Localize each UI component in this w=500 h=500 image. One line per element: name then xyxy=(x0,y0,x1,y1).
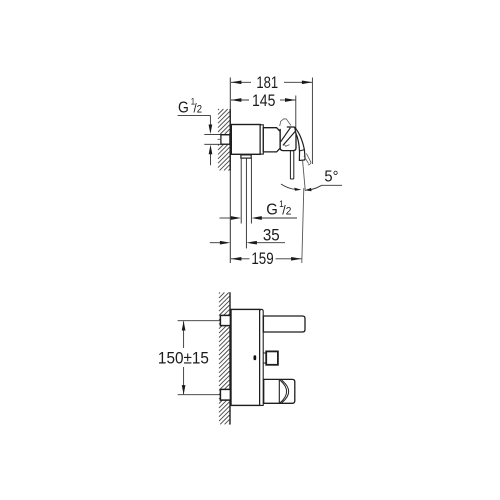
leader line from G 1/2 label + arrow shafts xyxy=(178,115,211,165)
label G 1/2 (outlet thread) xyxy=(266,199,291,219)
front face plate xyxy=(260,309,264,405)
label G 1/2 (inlet thread) xyxy=(178,97,202,116)
body trim ring xyxy=(260,125,263,154)
svg-text:2: 2 xyxy=(286,206,292,217)
svg-text:2: 2 xyxy=(197,104,203,116)
dimension 181: extension line right + dimension line segments xyxy=(231,78,312,165)
lever arm strokes xyxy=(281,128,296,146)
diverter knob xyxy=(266,351,278,364)
lever hub xyxy=(280,127,296,151)
svg-text:150±15: 150±15 xyxy=(158,350,209,368)
dimension 159: dimension line segments xyxy=(231,258,302,260)
wall hatching upper xyxy=(218,109,230,170)
dimension 150±15: dimension line segments xyxy=(183,321,185,394)
svg-text:5°: 5° xyxy=(324,168,338,186)
outlet-thread leader lines xyxy=(220,217,298,219)
dimension 150±15 arrowheads xyxy=(182,321,186,331)
wall hatching lower xyxy=(219,293,230,425)
temperature marker dot xyxy=(254,355,257,360)
in-wall union fitting with axis tick xyxy=(221,135,230,144)
cartridge cone xyxy=(263,128,280,152)
svg-text:G: G xyxy=(178,100,189,117)
lever alternate-position thin outline xyxy=(280,119,311,165)
svg-text:145: 145 xyxy=(252,92,275,110)
mixer body xyxy=(231,125,260,155)
dimension 159 value label xyxy=(251,251,273,268)
outlet-thread arrowheads xyxy=(231,216,241,220)
mixer body (side view) xyxy=(231,309,260,405)
diverter stem xyxy=(263,353,266,363)
wall face line lower xyxy=(229,292,231,424)
dimension 145 value label xyxy=(252,92,275,110)
top mounting union xyxy=(220,315,230,325)
bath spout xyxy=(263,316,305,332)
shower outlet pipe with centerline xyxy=(241,158,251,248)
angle 5deg: tilted lever axis line xyxy=(303,161,306,192)
inlet connection tube xyxy=(204,134,230,144)
angle 5deg value label xyxy=(324,168,338,186)
lever grip (solid position) xyxy=(295,128,305,161)
svg-text:35: 35 xyxy=(263,227,280,245)
dimension 35 value label xyxy=(263,227,280,245)
extension line at wall face (shared by dims 181/145/35/159) xyxy=(229,78,231,264)
svg-text:159: 159 xyxy=(251,251,273,268)
outlet collar nut xyxy=(241,155,251,158)
dimension 35: dimension line segments xyxy=(210,242,285,244)
angle 5deg: arc tails and arrowheads xyxy=(281,184,295,189)
dimension 150±15 value label xyxy=(158,350,209,368)
dimension 150±15: extension lines xyxy=(178,321,221,395)
svg-text:G: G xyxy=(266,201,278,219)
dimension 145: extension line right + dimension line segments xyxy=(231,96,296,130)
lever end rod xyxy=(290,151,293,179)
dimension 35 arrowheads xyxy=(220,241,231,245)
dimension 181 value label xyxy=(256,75,278,93)
inlet-thread arrowheads (down/up) xyxy=(209,125,213,135)
bottom mounting union xyxy=(220,389,230,400)
dimension 159 arrowheads xyxy=(231,257,242,261)
dimension 145 arrowheads xyxy=(231,98,242,102)
svg-text:181: 181 xyxy=(256,75,278,93)
handle knob with dome arcs xyxy=(264,379,295,403)
dimension 181 arrowheads xyxy=(231,80,242,84)
